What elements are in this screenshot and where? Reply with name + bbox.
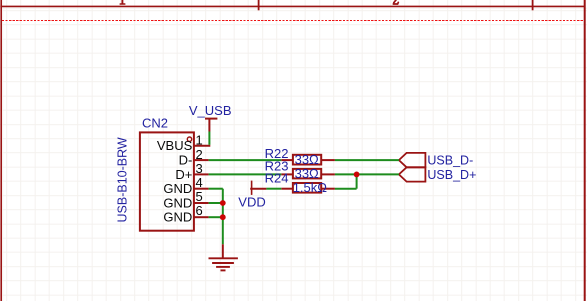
svg-text:33Ω: 33Ω: [295, 152, 319, 167]
svg-text:USB-B10-BRW: USB-B10-BRW: [116, 137, 130, 222]
svg-text:R24: R24: [265, 171, 289, 186]
svg-text:GND: GND: [163, 210, 192, 225]
svg-text:USB_D-: USB_D-: [427, 153, 473, 167]
svg-text:GND: GND: [163, 195, 192, 210]
svg-text:VDD: VDD: [238, 194, 265, 209]
svg-text:1.5kΩ: 1.5kΩ: [293, 180, 328, 195]
svg-text:D-: D-: [179, 153, 193, 168]
svg-text:V_USB: V_USB: [189, 103, 232, 118]
svg-text:CN2: CN2: [142, 116, 168, 131]
svg-text:33Ω: 33Ω: [295, 166, 319, 181]
svg-text:GND: GND: [163, 181, 192, 196]
svg-text:3: 3: [196, 161, 203, 176]
svg-text:USB_D+: USB_D+: [427, 168, 476, 182]
svg-text:2: 2: [196, 147, 203, 162]
svg-text:6: 6: [196, 203, 203, 218]
svg-text:5: 5: [196, 189, 203, 204]
svg-text:4: 4: [196, 175, 203, 190]
svg-text:1: 1: [196, 133, 203, 148]
svg-text:D+: D+: [175, 167, 192, 182]
svg-text:VBUS: VBUS: [157, 138, 193, 153]
